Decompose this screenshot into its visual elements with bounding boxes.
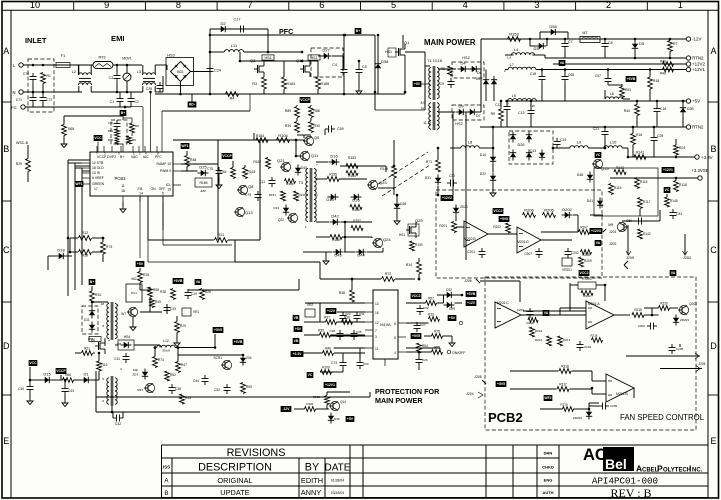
capacitor C907 <box>538 248 540 252</box>
svg-text:R214: R214 <box>583 294 591 298</box>
svg-text:C43: C43 <box>68 389 74 393</box>
svg-text:13 IS: 13 IS <box>92 171 101 175</box>
svg-text:L6: L6 <box>610 92 614 96</box>
net label +5VB standby <box>233 339 244 345</box>
svg-text:5: 5 <box>162 192 164 196</box>
svg-text:REV : B: REV : B <box>610 486 651 500</box>
net label +5VB m10 <box>466 291 477 297</box>
svg-text:PCB3: PCB3 <box>115 176 127 181</box>
svg-text:BD-: BD- <box>189 103 195 107</box>
svg-text:R89: R89 <box>285 109 291 113</box>
svg-text:BD1: BD1 <box>177 70 184 74</box>
zener ZD202 <box>586 412 592 417</box>
net label B+ <box>355 28 362 34</box>
rail RTN2 lower <box>480 126 686 128</box>
svg-text:C201: C201 <box>467 250 475 254</box>
inductor L12 <box>157 345 175 347</box>
svg-text:C26: C26 <box>422 358 428 362</box>
svg-text:EMI: EMI <box>111 34 125 43</box>
svg-text:D42: D42 <box>331 214 339 219</box>
IC M10A box <box>373 290 398 359</box>
op-amp M201:D <box>517 227 541 253</box>
protection box <box>594 168 658 216</box>
svg-text:HS1: HS1 <box>385 50 392 54</box>
dashed box D11 <box>82 306 98 334</box>
transistor Q23 <box>368 180 377 189</box>
svg-text:HS1: HS1 <box>265 56 272 60</box>
svg-text:+12V1: +12V1 <box>325 383 335 387</box>
diode D41 <box>597 201 603 206</box>
terminal +12V1 <box>686 67 690 71</box>
svg-text:Q11: Q11 <box>311 153 319 158</box>
resistor R115 <box>609 184 614 195</box>
transistor Q203 <box>679 305 688 314</box>
resistor R153 mid <box>346 164 358 169</box>
op-amp M201:C <box>495 302 521 328</box>
svg-text:D39: D39 <box>334 417 340 421</box>
rail RTN2 upper <box>545 57 686 59</box>
svg-text:ON: ON <box>150 187 156 191</box>
diode D32 <box>447 292 452 298</box>
svg-text:R6: R6 <box>132 138 136 142</box>
svg-text:+5VB: +5VB <box>467 292 476 296</box>
svg-text:R159: R159 <box>299 193 307 197</box>
wire pfc row <box>240 60 302 62</box>
capacitor C51 <box>672 209 674 213</box>
wires mid1 <box>316 161 328 163</box>
resistor R28 <box>171 289 176 300</box>
svg-text:M3/: M3/ <box>133 368 138 372</box>
svg-text:C25: C25 <box>146 87 152 91</box>
transistor Q8 <box>238 185 247 194</box>
inductor L5 <box>508 99 537 101</box>
svg-text:R208: R208 <box>582 253 590 257</box>
svg-text:W7: W7 <box>121 312 126 316</box>
svg-text:+3.3V: +3.3V <box>293 352 303 356</box>
svg-text:R25: R25 <box>143 273 149 277</box>
svg-text:C42: C42 <box>115 422 121 426</box>
svg-text:PCB2: PCB2 <box>488 410 523 425</box>
resistor R33 <box>309 122 314 133</box>
svg-text:+12V2: +12V2 <box>692 62 705 67</box>
wire bridge out <box>191 71 211 73</box>
resistor R218 pcb2 <box>559 369 571 374</box>
svg-text:ON/OFF: ON/OFF <box>452 351 466 355</box>
heatsink HS2 b <box>452 105 484 120</box>
svg-text:C13: C13 <box>518 111 524 115</box>
junction dots scatter <box>209 51 212 54</box>
diode D8 box <box>118 340 134 350</box>
svg-text:C33: C33 <box>170 307 176 311</box>
svg-text:6: 6 <box>394 322 396 326</box>
capacitor C202 pcb2 <box>647 325 651 327</box>
svg-text:Q15: Q15 <box>601 166 609 171</box>
resistor R71 <box>436 160 441 172</box>
svg-text:A: A <box>710 46 716 56</box>
diode D44 <box>359 249 364 255</box>
capacitor C44 <box>204 375 206 379</box>
diode D48 prot <box>587 175 593 180</box>
resistor R104 <box>277 138 290 143</box>
svg-text:VCC2: VCC2 <box>579 271 588 275</box>
diode D27 <box>324 53 329 59</box>
svg-text:WF1: WF1 <box>181 144 188 148</box>
svg-text:R184: R184 <box>256 134 264 138</box>
svg-text:B: B <box>710 144 716 154</box>
resistor R208 <box>581 250 592 255</box>
resistor R215 <box>632 313 644 318</box>
capacitor C28 <box>339 330 341 334</box>
svg-text:D11: D11 <box>84 318 90 322</box>
svg-text:6: 6 <box>319 0 324 10</box>
resistor R118 <box>674 181 679 192</box>
svg-text:D43: D43 <box>334 253 342 258</box>
capacitor C27 <box>416 322 418 326</box>
wire L line <box>23 64 56 66</box>
capacitor C204 <box>579 341 581 345</box>
capacitor C20 <box>187 289 189 293</box>
svg-text:D32: D32 <box>446 288 452 292</box>
svg-text:D202: D202 <box>562 207 572 212</box>
svg-text:C41: C41 <box>114 357 120 361</box>
inductor L10 <box>604 146 622 148</box>
resistor R58 b <box>79 250 92 255</box>
svg-text:R11: R11 <box>218 233 224 237</box>
svg-text:JMP: JMP <box>200 189 206 193</box>
svg-text:R181: R181 <box>306 402 314 406</box>
MOSFET Q10 <box>303 65 305 73</box>
wires m10 right <box>406 302 412 304</box>
svg-text:+12V1: +12V1 <box>692 67 705 72</box>
resistor R39 <box>320 333 331 338</box>
svg-text:R201: R201 <box>439 224 447 228</box>
terminal -12V <box>686 37 690 41</box>
svg-text:R185: R185 <box>321 82 330 86</box>
capacitor C40 <box>29 383 31 387</box>
svg-text:+5VB: +5VB <box>627 77 636 81</box>
svg-text:C3: C3 <box>109 76 113 80</box>
resistor R46 <box>663 67 674 72</box>
diode D4 <box>461 66 466 72</box>
resistor R164 <box>231 168 236 179</box>
net label +5V5 mid <box>213 327 224 333</box>
wire IAC sense <box>150 92 152 152</box>
svg-text:D4: D4 <box>460 61 466 66</box>
svg-text:VC: VC <box>308 373 313 377</box>
svg-text:+5V: +5V <box>692 99 700 104</box>
wire C17 branch <box>209 29 211 35</box>
terminal N <box>19 90 23 94</box>
svg-text:B: B <box>3 144 9 154</box>
wire q1 branch <box>402 35 404 48</box>
diode D38 <box>375 64 381 69</box>
svg-text:ORIGINAL: ORIGINAL <box>217 476 252 485</box>
svg-text:C27: C27 <box>420 323 426 327</box>
svg-text:C18: C18 <box>530 72 536 76</box>
wire pcb3 icl long <box>162 196 164 245</box>
PCB3 pin stubs bottom <box>122 196 124 202</box>
capacitor C31 <box>356 312 358 316</box>
svg-text:D13: D13 <box>273 206 279 210</box>
svg-text:R38: R38 <box>339 291 345 295</box>
svg-text:B+: B+ <box>120 155 124 159</box>
svg-text:R202: R202 <box>493 225 501 229</box>
svg-text:R165: R165 <box>199 181 207 185</box>
transistor Q15 <box>593 159 602 168</box>
resistor R89 <box>295 107 300 118</box>
net label +12V3 <box>590 228 603 234</box>
svg-text:C2: C2 <box>135 100 139 104</box>
svg-text:HS1: HS1 <box>88 337 94 341</box>
capacitor C19 <box>556 138 558 142</box>
op-amp M201:A <box>586 301 614 329</box>
svg-text:R205: R205 <box>544 208 554 213</box>
svg-text:4: 4 <box>463 0 468 10</box>
resistor R212 <box>547 336 552 346</box>
svg-text:J205: J205 <box>699 362 706 366</box>
svg-text:C907: C907 <box>524 252 532 256</box>
net label VCCP left2 <box>56 368 67 374</box>
capacitor C35 <box>353 330 355 334</box>
svg-text:VB: VB <box>294 339 299 343</box>
svg-text:R24: R24 <box>679 146 685 150</box>
wire bias long <box>188 289 299 291</box>
svg-text:R153: R153 <box>509 32 519 37</box>
svg-text:D26: D26 <box>352 198 360 203</box>
svg-text:D58: D58 <box>549 24 557 29</box>
svg-text:R219: R219 <box>560 403 568 407</box>
RT201 box <box>578 282 596 289</box>
resistor R207 <box>579 230 590 235</box>
diode D6 <box>472 66 477 72</box>
svg-text:D15: D15 <box>43 372 51 377</box>
svg-text:D29: D29 <box>449 307 455 311</box>
net label VA prot <box>595 240 602 246</box>
rail +3.3VSB <box>610 177 698 179</box>
svg-text:5: 5 <box>391 0 396 10</box>
svg-text:J204: J204 <box>466 392 473 396</box>
svg-text:D16: D16 <box>330 154 338 159</box>
svg-text:ICL: ICL <box>166 183 171 187</box>
transformer T2 <box>107 303 109 338</box>
resistor R59 <box>241 383 246 394</box>
net label +5V5 pcb2 <box>496 381 507 387</box>
wire mid verticals <box>259 140 261 240</box>
svg-text:L8: L8 <box>468 140 473 145</box>
resistor R210 pcb2 <box>530 327 535 337</box>
resistor R14 <box>417 262 422 274</box>
svg-text:C205: C205 <box>676 347 684 351</box>
svg-text:R118: R118 <box>679 183 687 187</box>
svg-text:R5: R5 <box>135 124 139 128</box>
svg-text:12 STB: 12 STB <box>92 161 104 165</box>
svg-text:VCC2: VCC2 <box>411 294 420 298</box>
transistor Q24 <box>373 238 382 247</box>
capacitor C57 <box>607 75 609 79</box>
svg-text:A: A <box>3 46 9 56</box>
svg-text:R9: R9 <box>491 112 495 116</box>
svg-text:API4PC01-000: API4PC01-000 <box>592 476 658 487</box>
svg-text:+5VB: +5VB <box>234 340 243 344</box>
svg-text:ZD3: ZD3 <box>132 373 138 377</box>
capacitor C9 <box>450 78 452 82</box>
svg-text:13: 13 <box>375 302 379 306</box>
svg-text:R206: R206 <box>524 208 534 213</box>
ground pcb3 <box>122 206 124 209</box>
svg-text:R115: R115 <box>614 186 622 190</box>
svg-text:R35: R35 <box>108 138 114 142</box>
capacitor C30 <box>447 182 451 184</box>
svg-text:R164: R164 <box>219 170 227 174</box>
svg-text:J202: J202 <box>609 242 616 246</box>
svg-text:R12: R12 <box>82 231 89 235</box>
capacitor C43 <box>64 385 66 389</box>
svg-text:ZD20: ZD20 <box>460 205 468 209</box>
capacitor C12 <box>506 103 508 107</box>
diode D18 left <box>59 253 64 259</box>
wire +3.3 rail to m10 <box>406 347 440 349</box>
svg-text:D14: D14 <box>480 153 486 157</box>
resistor R156b <box>330 235 342 240</box>
wire J209 drop <box>627 225 629 255</box>
svg-text:300uH: 300uH <box>162 349 170 353</box>
wire R4 cont <box>162 110 250 112</box>
svg-text:+5V: +5V <box>295 327 302 331</box>
svg-text:R116: R116 <box>640 180 648 184</box>
svg-text:C4: C4 <box>332 63 337 67</box>
capacitor C26 <box>418 356 420 360</box>
svg-text:D6: D6 <box>476 77 480 81</box>
svg-text:HS2: HS2 <box>462 56 469 60</box>
resistor K33 <box>429 317 440 322</box>
diode D25 <box>201 170 206 176</box>
net label VA out <box>559 60 566 66</box>
net label +5V5 a <box>499 216 510 222</box>
MOSFET Q25 <box>409 226 411 234</box>
diode D39 <box>328 416 334 421</box>
svg-text:R48: R48 <box>190 158 196 162</box>
svg-text:Q5: Q5 <box>314 135 320 140</box>
svg-text:R217: R217 <box>559 383 567 387</box>
wire fan rail <box>519 283 521 302</box>
capacitor C29 <box>653 134 655 138</box>
resistor R45 <box>150 299 155 308</box>
svg-text:R73: R73 <box>106 245 112 249</box>
resistor R30 <box>342 320 353 325</box>
resistor R201 <box>452 222 457 233</box>
svg-text:C32: C32 <box>423 306 429 310</box>
svg-text:R65: R65 <box>68 127 74 131</box>
resistor R52 <box>165 371 170 381</box>
svg-text:RTN2: RTN2 <box>692 56 704 61</box>
svg-text:Q8: Q8 <box>248 184 254 189</box>
resistor R206 <box>523 213 536 218</box>
bridge rectifier BD1 <box>171 62 191 82</box>
svg-text:ZD203: ZD203 <box>680 318 689 322</box>
svg-text:D41: D41 <box>587 199 593 203</box>
net label VB a <box>293 315 300 321</box>
resistor R29 <box>26 159 31 172</box>
svg-text:L10: L10 <box>610 140 617 145</box>
resistor R24 <box>674 145 679 155</box>
wire top vertical q1 to t1 <box>424 52 426 66</box>
capacitor C11 <box>271 177 273 181</box>
svg-text:C15: C15 <box>108 121 114 125</box>
svg-text:+3.3VSB: +3.3VSB <box>691 168 709 173</box>
svg-text:R154: R154 <box>348 174 356 178</box>
varistor VR1 <box>182 308 191 316</box>
svg-text:MAIN POWER: MAIN POWER <box>424 38 476 47</box>
svg-text:R149: R149 <box>380 167 388 171</box>
svg-text:VA: VA <box>196 280 201 284</box>
svg-text:ZD202: ZD202 <box>573 416 582 420</box>
svg-text:M201:C: M201:C <box>497 301 509 305</box>
net label VCC2 a <box>493 208 504 214</box>
common-mode choke L2 <box>78 73 91 75</box>
svg-text:PROTECTION FOR: PROTECTION FOR <box>375 387 440 396</box>
svg-text:R72: R72 <box>385 272 392 276</box>
resistor R37 <box>326 320 337 325</box>
svg-text:C24: C24 <box>214 69 221 73</box>
svg-text:VB: VB <box>294 316 299 320</box>
svg-text:D2B: D2B <box>687 107 694 111</box>
svg-text:R71: R71 <box>426 160 432 164</box>
svg-text:11: 11 <box>121 184 125 188</box>
resistor R154 <box>346 171 358 176</box>
svg-text:C31: C31 <box>359 312 365 316</box>
resistor R29 bias <box>175 322 180 333</box>
net label WF1 a <box>75 181 84 187</box>
svg-text:B: B <box>164 490 168 497</box>
wire pcb3 to mid <box>173 139 254 141</box>
net label +5VB out <box>626 76 637 82</box>
svg-text:L5: L5 <box>512 94 516 98</box>
svg-text:VA: VA <box>596 241 601 245</box>
svg-text:8: 8 <box>394 336 396 340</box>
transistor M37 <box>145 383 154 392</box>
rail +5V <box>505 100 686 102</box>
svg-text:R29: R29 <box>180 324 186 328</box>
svg-text:C23: C23 <box>345 312 351 316</box>
resistor R54 <box>417 343 422 353</box>
svg-text:R51: R51 <box>625 88 631 92</box>
svg-text:M10A: M10A <box>380 322 391 327</box>
svg-text:+12V2: +12V2 <box>442 196 452 200</box>
wire pcb3 fb long <box>139 196 141 258</box>
svg-text:R104: R104 <box>278 133 288 138</box>
diode D22 <box>490 176 496 181</box>
svg-text:R16: R16 <box>636 133 642 137</box>
svg-text:R160: R160 <box>286 182 294 186</box>
svg-text:10: 10 <box>30 0 40 10</box>
title block frame <box>162 444 709 446</box>
net label VB b <box>293 338 300 344</box>
resistor R65 <box>62 125 67 136</box>
svg-text:T9: T9 <box>420 107 424 111</box>
wire right vertical links <box>465 148 467 260</box>
resistor R202 fan <box>506 223 511 233</box>
resistor R184 <box>256 138 268 143</box>
op-amp M202:B <box>464 221 488 247</box>
wire pcb3 onoff long <box>147 196 149 262</box>
svg-text:INLET: INLET <box>25 36 47 45</box>
resistor R159 <box>294 191 299 201</box>
svg-text:VR201: VR201 <box>562 268 572 272</box>
wire left verticals 2 <box>47 256 49 270</box>
dashed box C15 R63 R35 <box>111 120 127 144</box>
resistor R162 <box>266 158 271 169</box>
svg-text:ANNY: ANNY <box>301 488 322 497</box>
